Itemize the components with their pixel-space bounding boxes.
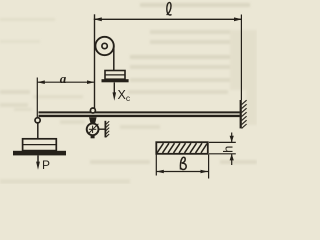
label B (beta) [180, 157, 186, 169]
weight Xc base [102, 79, 129, 82]
pulley hub [102, 43, 107, 48]
dimension l left arrowhead [94, 17, 102, 21]
wheel spokes [88, 124, 98, 134]
right wall hatches [242, 100, 247, 104]
svg-text:a: a [60, 71, 67, 86]
support neck (trapezoid) [89, 117, 97, 123]
weight P base [13, 151, 66, 156]
beam (double line) [39, 111, 240, 113]
dimension h line with outside arrows [231, 133, 233, 143]
svg-text:h: h [221, 146, 236, 153]
support bottom tab [91, 135, 95, 138]
dimension B line [156, 171, 208, 173]
dimension l right arrowhead [234, 17, 242, 21]
weight P block [23, 139, 57, 151]
support ring on beam [90, 108, 95, 113]
link to wall [99, 128, 105, 130]
cross-section rectangle [156, 142, 208, 154]
wire: rope right side [113, 46, 115, 71]
wire: right extension line [240, 15, 242, 101]
dimension l line [94, 18, 242, 20]
force Xc arrow [113, 83, 115, 94]
dimension h extension lines [209, 141, 236, 143]
dimension a line [37, 81, 94, 83]
pulley [95, 37, 113, 55]
force P arrow [37, 155, 39, 162]
wire: hanger rod of P [37, 123, 39, 139]
cross-section hatching [157, 143, 207, 153]
right wall line [240, 100, 242, 128]
mini wall hatches [106, 121, 110, 124]
node: left end ring [35, 118, 40, 123]
dimension a right arrowhead [87, 80, 95, 84]
dimension a left arrowhead [37, 80, 45, 84]
dimension B extension lines [155, 155, 157, 176]
wire: left extension line [36, 78, 38, 118]
support wheel circle [87, 123, 99, 135]
label l (script ell) [167, 2, 172, 15]
mini wall line [104, 121, 106, 138]
svg-text:P: P [42, 158, 50, 172]
weight Xc block [105, 71, 125, 80]
wire: vertical extension / rope over pulley left [94, 14, 96, 108]
paper background [0, 0, 257, 184]
